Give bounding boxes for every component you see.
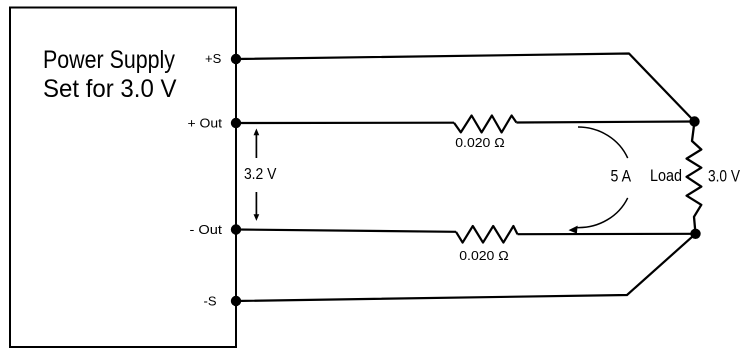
svg-text:3.0 V: 3.0 V: [708, 167, 740, 185]
node -S terminal: [231, 296, 241, 306]
node load top junction: [689, 116, 699, 126]
annotation 3.2 V double arrow lower shaft: [255, 192, 257, 217]
annotation 5 A arrowhead: [569, 226, 577, 233]
svg-text:5 A: 5 A: [611, 168, 632, 186]
annotation 3.2 V arrowhead down: [254, 215, 259, 221]
resistor R1 (top 0.020 ohm): [454, 116, 516, 133]
svg-text:3.2 V: 3.2 V: [244, 166, 277, 183]
svg-text:- Out: - Out: [190, 222, 223, 237]
node +Out terminal: [231, 118, 241, 128]
annotation 5 A current arrow (curved, upper arc): [578, 127, 628, 158]
svg-text:Power Supply: Power Supply: [43, 47, 176, 74]
node load bottom junction: [690, 229, 700, 239]
power supply box: [10, 8, 236, 348]
node +S terminal: [231, 54, 241, 64]
node -Out terminal: [231, 224, 241, 234]
annotation 3.2 V double arrow upper shaft: [255, 133, 257, 158]
resistor R2 (bottom 0.020 ohm): [456, 226, 518, 243]
annotation 3.2 V arrowhead up: [254, 129, 259, 135]
svg-text:Load: Load: [650, 167, 682, 185]
wire -Out lead left segment: [236, 230, 456, 232]
svg-text:Set for 3.0 V: Set for 3.0 V: [43, 76, 177, 103]
svg-text:-S: -S: [204, 293, 217, 308]
wire -S sense lead: [236, 234, 696, 301]
svg-text:0.020 Ω: 0.020 Ω: [459, 248, 509, 263]
svg-text:0.020 Ω: 0.020 Ω: [455, 135, 505, 150]
wire -Out lead right segment: [518, 233, 696, 236]
wire +S sense lead: [236, 54, 695, 122]
resistor Load (vertical zigzag): [687, 122, 702, 234]
svg-text:+S: +S: [205, 51, 222, 66]
svg-text:+ Out: + Out: [188, 116, 223, 131]
wire +Out lead left segment: [236, 122, 454, 125]
wire +Out lead right segment: [516, 122, 694, 123]
annotation 5 A current arrow (curved, lower arc): [578, 198, 628, 228]
